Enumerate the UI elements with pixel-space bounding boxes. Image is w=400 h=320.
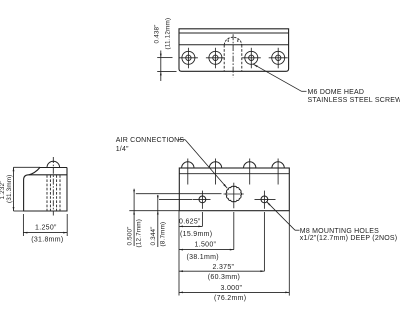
side view body <box>24 168 67 212</box>
svg-text:(15.9mm): (15.9mm) <box>180 231 212 238</box>
top view hidden air fitting (dashed slot with dome) <box>224 37 242 71</box>
svg-text:x1/2”(12.7mm) DEEP (2NOS): x1/2”(12.7mm) DEEP (2NOS) <box>300 235 398 242</box>
svg-text:1/4”: 1/4” <box>116 146 129 153</box>
dimension 0.438 (11.12mm) <box>157 51 176 82</box>
svg-text:0.344”: 0.344” <box>150 226 157 245</box>
top view screw hole 4 <box>269 48 288 69</box>
dimension 0.344 (8.7mm) vertical <box>157 195 192 247</box>
svg-text:STAINLESS STEEL SCREWS: STAINLESS STEEL SCREWS <box>308 97 400 104</box>
svg-text:(38.1mm): (38.1mm) <box>187 254 219 261</box>
extension line block left edge <box>178 211 180 296</box>
top view screw hole 1 <box>179 48 198 69</box>
top view screw hole 2 <box>206 48 225 69</box>
M8 mounting hole right <box>255 191 276 209</box>
svg-text:2.375”: 2.375” <box>213 264 235 271</box>
svg-text:(8.7mm): (8.7mm) <box>160 222 167 247</box>
front view dome screw head 2 <box>209 159 221 185</box>
top view block outline <box>179 29 289 72</box>
extension line right M8 center <box>263 212 265 271</box>
svg-text:M8 MOUNTING HOLES: M8 MOUNTING HOLES <box>300 228 379 235</box>
front view block outline <box>179 168 289 211</box>
top view screw hole 3 <box>242 48 261 69</box>
svg-text:(31.8mm): (31.8mm) <box>31 237 63 244</box>
front view dome screw head 3 <box>244 159 256 185</box>
svg-text:1.500”: 1.500” <box>195 242 217 249</box>
side view hidden hole lines <box>47 175 60 211</box>
dimension 1.250 (31.8mm) horizontal <box>23 214 67 236</box>
top view upper edge line <box>179 32 289 34</box>
leader M8 mounting holes <box>266 201 299 230</box>
front view dome screw head 4 <box>272 159 284 185</box>
M8 mounting hole left <box>193 191 211 209</box>
leader air connections <box>178 140 228 189</box>
front view dome screw head 1 <box>182 159 194 185</box>
svg-text:(60.3mm): (60.3mm) <box>208 274 240 281</box>
svg-text:(76.2mm): (76.2mm) <box>214 295 246 302</box>
air connection port (knurled circle) <box>224 183 244 209</box>
side view centerline <box>52 157 54 216</box>
svg-text:0.438”: 0.438” <box>154 24 161 43</box>
svg-text:0.500”: 0.500” <box>126 226 133 245</box>
dimension 3.000 (76.2mm) <box>179 292 289 294</box>
svg-text:(11.12mm): (11.12mm) <box>165 18 172 50</box>
bottom edge extension line left of front view <box>129 210 179 212</box>
extension line air connection center <box>233 212 235 250</box>
svg-text:1.250”: 1.250” <box>35 225 57 232</box>
svg-text:(31.3mm): (31.3mm) <box>6 174 13 203</box>
dimension 0.625 (15.9mm) <box>179 226 202 228</box>
svg-text:3.000”: 3.000” <box>221 285 243 292</box>
front view top strip line <box>179 173 289 175</box>
leader M6 dome head screws <box>253 64 307 91</box>
extension line block right edge <box>288 211 290 296</box>
extension line left M8 center <box>201 212 203 226</box>
svg-text:(12.7mm): (12.7mm) <box>135 219 142 248</box>
dimension 0.500 (12.7mm) vertical <box>133 189 221 246</box>
svg-text:AIR CONNECTIONS: AIR CONNECTIONS <box>116 137 185 144</box>
dimension 2.375 (60.3mm) <box>179 270 264 272</box>
dimension 1.232 (31.3mm) vertical <box>13 167 40 211</box>
svg-text:M6 DOME HEAD: M6 DOME HEAD <box>308 89 365 96</box>
top view step edge line <box>179 44 289 46</box>
dimension 1.500 (38.1mm) <box>179 249 234 251</box>
side view dome screw head <box>47 161 60 167</box>
top view slot centerline <box>232 34 234 77</box>
svg-text:0.625”: 0.625” <box>179 218 201 225</box>
